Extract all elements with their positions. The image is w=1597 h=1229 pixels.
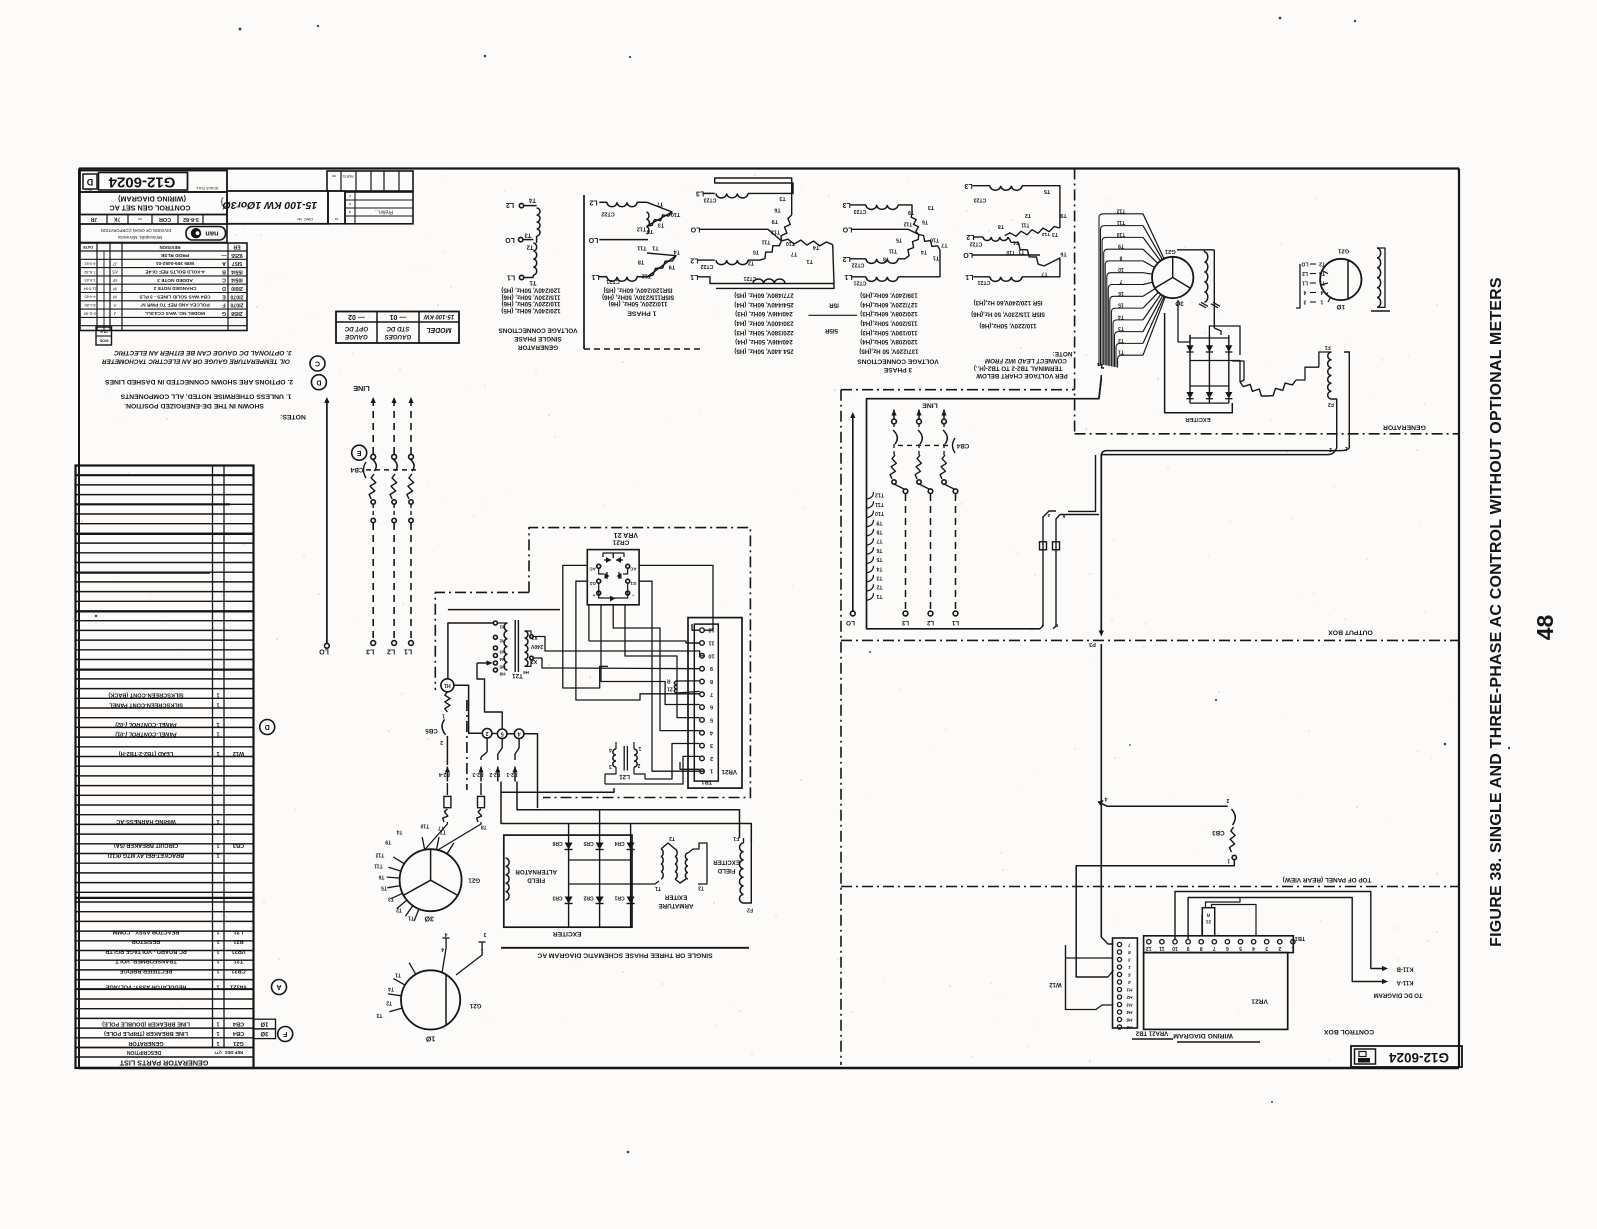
exciter cross wires [569,859,631,861]
wire P3 long drop [1100,455,1102,633]
wire TB1-11 stub [688,642,700,644]
output box inner frame [867,381,1102,629]
svg-text:TB1: TB1 [1295,935,1306,941]
svg-text:5: 5 [1128,972,1131,977]
svg-text:G1: G1 [630,581,637,586]
svg-text:5: 5 [710,716,713,722]
diode CR5 [599,835,601,927]
svg-text:P2-4: P2-4 [439,771,450,777]
svg-text:CT23: CT23 [854,208,867,214]
svg-text:T4: T4 [1013,239,1019,245]
generator G21 1-phase (schematic) [401,970,460,1029]
svg-text:T2: T2 [876,584,882,590]
svg-text:1: 1 [216,842,219,848]
wire branch to fuse pair [1068,455,1096,511]
svg-text:7: 7 [1041,622,1044,627]
generator G21 1-phase [1320,259,1361,300]
svg-text:9: 9 [1186,945,1189,951]
breaker CB4 output pole 2 [916,410,921,416]
svg-text:G21: G21 [1337,247,1349,253]
wire junction to plug2 [454,685,483,733]
svg-text:BRACKET-RELAY MTG (K11): BRACKET-RELAY MTG (K11) [108,852,185,858]
svg-text:1: 1 [1227,858,1230,864]
svg-text:T10: T10 [930,237,939,243]
generator 1ph lead T3 [389,1008,402,1012]
terminal TB1-5 [700,718,705,723]
note marker C [310,356,325,371]
svg-text:G12-6024: G12-6024 [1388,1050,1449,1065]
winding diagram W2 one-phase doubledelta [607,202,637,207]
exciter armature winding (right) [1240,382,1267,396]
svg-text:OPT DC: OPT DC [344,325,368,332]
svg-text:TB1: TB1 [701,778,712,784]
svg-text:8: 8 [1119,254,1122,260]
svg-text:T9: T9 [385,838,391,844]
winding diagram W4 three phase wye B [850,204,866,206]
svg-text:T1: T1 [933,255,939,261]
svg-text:11: 11 [1159,945,1165,951]
option marker D [260,720,275,735]
svg-text:7: 7 [1213,945,1216,951]
alternator field winding [506,858,510,900]
svg-text:120/208V, 50Hz,(H4): 120/208V, 50Hz,(H4) [860,338,918,345]
svg-text:L2: L2 [926,619,934,625]
svg-text:1-5-83: 1-5-83 [85,278,96,282]
svg-text:T1: T1 [1018,249,1024,255]
svg-text:VR21: VR21 [1251,998,1268,1005]
svg-text:P2-2: P2-2 [489,771,500,777]
generator G21 lead T7 [422,837,425,850]
svg-text:2: 2 [1278,945,1281,951]
terminal TB1w-2 [1278,940,1282,944]
svg-text:240V: 240V [530,643,543,649]
svg-text:G21: G21 [233,1040,244,1046]
wire CR21 loop 2 [576,581,700,700]
group divider line [583,195,585,349]
1ph stubs up [442,938,446,973]
svg-text:FIELD: FIELD [527,877,545,884]
fuse below P2-3 [480,783,482,795]
svg-text:8: 8 [710,678,713,684]
svg-text:PROD RLSE: PROD RLSE [160,252,189,258]
wire plug5 to T21 H5 arrow [485,700,503,729]
svg-text:7: 7 [1128,942,1131,947]
svg-text:G12-6024: G12-6024 [108,174,175,191]
terminal TB1w-7 [1212,940,1216,944]
svg-text:CR6: CR6 [552,840,562,846]
resistor R21 schematic [674,681,677,693]
svg-text:I5R120/240V, 60Hz, (H5): I5R120/240V, 60Hz, (H5) [604,287,673,294]
T21 terminal H6 [493,668,497,672]
svg-text:T5: T5 [1044,188,1050,194]
svg-text:T11: T11 [889,248,898,254]
svg-text:CR4: CR4 [614,840,624,846]
svg-text:T3: T3 [1118,325,1124,331]
svg-text:−: − [632,592,635,597]
generator G21 lead T10 [437,837,440,850]
svg-text:CT21: CT21 [606,278,619,284]
svg-text:VR21: VR21 [232,948,246,954]
terminal TB2-H6 [1117,1025,1121,1029]
svg-text:T10: T10 [671,211,680,217]
svg-text:R: R [667,677,671,683]
sheet border frame [79,167,1459,169]
svg-text:L1: L1 [507,274,515,281]
svg-text:120/240V, 50Hz, (H5): 120/240V, 50Hz, (H5) [501,287,560,294]
svg-text:CB5: CB5 [425,727,438,734]
rotating rectifier leg 1 [1189,335,1191,403]
svg-text:9255: 9255 [231,252,243,258]
svg-text:1 PHASE: 1 PHASE [627,310,657,317]
svg-text:T2: T2 [748,259,754,265]
svg-text:T6: T6 [378,874,384,880]
svg-text:G: G [222,310,226,316]
svg-text:ER: ER [233,244,240,250]
svg-text:T2: T2 [1118,337,1124,343]
svg-text:PC BOARD - VOLTAGE RGLTR: PC BOARD - VOLTAGE RGLTR [105,948,186,954]
svg-text:I5R 120/240V,60 Hz,(H3): I5R 120/240V,60 Hz,(H3) [974,299,1043,306]
reactor L21 [613,749,616,767]
svg-text:GAUGES: GAUGES [384,333,412,340]
svg-text:1: 1 [216,721,219,727]
svg-text:230/400V, 60Hz, (H4): 230/400V, 60Hz, (H4) [734,319,793,326]
svg-text:139/240V, 60Hz,(H5): 139/240V, 60Hz,(H5) [860,291,918,298]
wire mesh verticals [588,605,590,641]
terminal TB1-11 [700,641,705,646]
terminal TB1w-1 [1291,940,1295,944]
svg-text:LO: LO [963,251,973,258]
wire bottom rail B from P2-1 [517,782,740,839]
winding diagram W3 three phase wye A [704,192,715,194]
svg-text:T1: T1 [806,258,812,264]
generator G21 3-phase (schematic) [400,849,462,911]
wire plug4 right to bottom rail [524,734,538,808]
svg-text:15-K: 15-K [100,330,108,334]
svg-text:GENERATOR: GENERATOR [518,343,559,350]
svg-text:4-3-82: 4-3-82 [85,262,96,266]
terminal TB1-4 [700,731,705,736]
svg-text:3: 3 [710,742,713,748]
svg-text:CIRCUIT BREAKER (5A): CIRCUIT BREAKER (5A) [114,842,178,848]
breaker CB4 pole L1 [410,399,412,454]
svg-text:F2: F2 [747,906,753,912]
svg-text:T12: T12 [375,851,384,857]
svg-text:T9: T9 [669,263,675,269]
svg-text:T6: T6 [922,219,928,225]
svg-text:VA121: VA121 [230,984,247,990]
svg-text:REACTOR ASSY - COMM: REACTOR ASSY - COMM [112,929,179,935]
svg-text:T6: T6 [1060,250,1066,256]
svg-text:4: 4 [441,946,444,952]
svg-text:F2: F2 [1328,401,1334,407]
svg-text:1: 1 [216,958,219,964]
svg-text:SCALE FULL: SCALE FULL [196,186,219,190]
terminal TB2-H1 [1117,987,1121,991]
generator G21 lead T5 [391,893,403,899]
svg-text:T21: T21 [512,672,523,679]
svg-text:T2: T2 [669,835,675,841]
svg-text:L1: L1 [965,273,973,280]
svg-text:T7: T7 [876,538,882,544]
plug circle 5 [497,729,507,739]
svg-text:T1: T1 [529,279,537,285]
svg-text:T3: T3 [876,575,882,581]
svg-text:MODEL: MODEL [426,326,451,333]
svg-text:T3: T3 [698,884,704,890]
svg-text:16: 16 [1118,290,1124,296]
svg-text:LO: LO [690,225,700,232]
generator G21 lead T6 [387,886,400,888]
svg-text:LO: LO [588,236,598,243]
terminal TB1w-8 [1199,940,1203,944]
svg-text:F: F [282,1030,287,1037]
svg-text:CB4: CB4 [232,1020,244,1026]
svg-text:5I5R: 5I5R [824,327,838,334]
svg-text:LO: LO [1301,261,1308,267]
svg-text:VR21: VR21 [721,768,737,775]
svg-text:H6: H6 [499,671,505,676]
terminal TB1w-12 [1147,940,1151,944]
svg-text:W12: W12 [1049,981,1062,987]
svg-text:CB3: CB3 [1212,829,1225,836]
svg-text:F: F [222,302,225,308]
svg-text:L1: L1 [844,273,852,280]
svg-text:T3: T3 [388,896,394,902]
svg-text:E: E [222,293,226,299]
wire T21 X2 to TB1-9 [533,658,699,669]
svg-text:4: 4 [1104,796,1107,802]
svg-text:T8: T8 [876,529,882,535]
T21 terminal H3 [493,646,497,650]
svg-text:254 440V, 50Hz, (H5): 254 440V, 50Hz, (H5) [734,347,793,354]
svg-text:T4: T4 [396,828,402,834]
svg-text:5: 5 [501,730,504,736]
svg-text:L1: L1 [1302,280,1308,286]
svg-text:T4: T4 [388,985,394,991]
terminal TB1-9 [700,666,705,671]
svg-text:ADDED NOTE 3: ADDED NOTE 3 [157,277,193,283]
leads 3ph to fuses [424,822,447,851]
svg-text:T2: T2 [1319,261,1325,267]
svg-text:L2: L2 [843,255,851,262]
svg-text:REF DES: REF DES [225,1050,243,1055]
wires TB1 to K11 [1175,892,1385,969]
plug arrow P2-4 [445,767,450,773]
svg-text:T9: T9 [772,218,778,224]
svg-text:T10: T10 [420,823,429,829]
svg-text:T8: T8 [638,259,644,265]
svg-text:CR2: CR2 [583,895,593,901]
svg-text:ALTERNATOR: ALTERNATOR [515,868,557,875]
svg-text:T4: T4 [1118,313,1124,319]
scan-dark row artifacts [76,533,253,535]
svg-text:T6: T6 [876,547,882,553]
svg-text:M: M [113,295,117,300]
svg-text:A: A [113,303,117,308]
svg-text:T21: T21 [234,958,244,964]
svg-text:L3: L3 [843,201,851,208]
svg-text:D: D [86,177,93,187]
svg-text:4: 4 [444,931,447,937]
svg-text:AC: AC [589,567,596,572]
svg-text:10: 10 [708,652,714,658]
svg-text:1: 1 [216,1020,219,1026]
svg-text:3: 3 [609,763,612,769]
svg-text:T11: T11 [637,245,646,251]
svg-text:T3: T3 [928,204,934,210]
winding diagram W5 three phase wye C [973,185,990,187]
svg-text:NOTE:: NOTE: [1053,350,1073,357]
svg-text:SINGLE PHASE: SINGLE PHASE [513,335,561,342]
breaker CB4 pole L3 [372,399,374,454]
plug terminal H1 circle [441,679,454,692]
svg-text:L1: L1 [591,273,599,280]
svg-text:T1: T1 [652,245,658,251]
svg-text:T10: T10 [875,510,884,516]
svg-text:+: + [592,592,595,597]
svg-text:L3: L3 [366,648,374,655]
svg-text:CONTROL BOX: CONTROL BOX [1323,1028,1374,1035]
option marker A [272,980,287,995]
svg-text:C: C [315,360,320,367]
svg-text:T9: T9 [876,519,882,525]
svg-text:277/480V, 60Hz, (H5): 277/480V, 60Hz, (H5) [734,291,793,298]
svg-text:1: 1 [442,712,445,718]
svg-text:OUTPUT BOX: OUTPUT BOX [1328,629,1373,636]
svg-text:SINGLE OR THREE PHASE SCHE: SINGLE OR THREE PHASE SCHEMATIC DIAGRAM … [537,952,712,959]
svg-text:REGULATOR ASSY- VOLTAGE: REGULATOR ASSY- VOLTAGE [105,984,186,990]
wire L21-1 to TB1-3 [645,744,700,780]
wire H1 to T21-H1 [448,623,494,679]
svg-text:T6: T6 [647,228,653,234]
wire CR21 G1 right loop [639,581,704,771]
svg-text:137/220V, 50 Hz,(H5): 137/220V, 50 Hz,(H5) [859,347,918,354]
svg-text:H5: H5 [1126,1017,1132,1022]
svg-text:M: M [113,286,117,291]
svg-text:T12: T12 [637,226,646,232]
svg-text:4-XOLD BOLTS REF OI.4E: 4-XOLD BOLTS REF OI.4E [145,269,205,275]
svg-text:2II58: 2II58 [231,310,243,316]
svg-text:L2: L2 [966,233,974,240]
wire + down to TB1-5 [601,605,700,705]
svg-text:G21: G21 [468,876,480,883]
wire CR21 loop 1 [563,565,608,688]
svg-text:T11: T11 [1021,221,1030,227]
svg-text:B: B [222,268,226,274]
plug arrow P2-1 [512,767,517,773]
svg-text:P3: P3 [1089,641,1096,647]
svg-text:4: 4 [1320,289,1323,295]
diode CR6 [568,835,570,927]
breaker CB4 output pole 3 [941,410,946,416]
svg-text:CT21: CT21 [854,280,867,286]
svg-text:8: 8 [1128,950,1131,955]
svg-text:CB4: CB4 [956,442,969,449]
assembly boundary VRA21 (dash-dot) [529,528,750,798]
svg-text:3. OPTIONAL DC GAUGE CAN BE EI: 3. OPTIONAL DC GAUGE CAN BE EITHER AN EL… [114,349,292,356]
svg-text:VOLTAGE CONNECTIONS: VOLTAGE CONNECTIONS [857,357,939,364]
svg-text:7-N-82: 7-N-82 [84,270,96,274]
terminal TB1w-4 [1251,940,1255,944]
wire pair to P3 drop [1101,448,1336,455]
caption single or three phase schematic [501,947,749,949]
svg-text:CR3: CR3 [552,895,562,901]
svg-text:L2: L2 [690,256,698,263]
winding diagram W1 single phase [537,208,540,236]
svg-text:SHOWN IN THE DE-ENERGIZED POSI: SHOWN IN THE DE-ENERGIZED POSITION. [124,402,264,409]
terminal TB1w-3 [1265,940,1269,944]
exciter field coil (right) [1328,352,1332,399]
svg-text:LO: LO [319,648,329,655]
diode CR4 [630,835,632,927]
svg-text:VRA 21: VRA 21 [614,531,638,538]
svg-text:6: 6 [710,704,713,710]
svg-text:15-100 KW: 15-100 KW [422,313,454,319]
winding coil right of 3ph generator [1196,249,1214,251]
svg-text:CT23: CT23 [974,196,987,202]
generator G21 lead T4 [447,843,454,854]
svg-text:TRANSFORMER- VOLT: TRANSFORMER- VOLT [115,958,177,964]
svg-text:T4: T4 [812,244,819,250]
svg-text:12: 12 [1146,945,1152,951]
svg-text:CB4 WAS SOLID LINES - 3 PLS: CB4 WAS SOLID LINES - 3 PLS [139,293,211,299]
title box G12-6024 bottom [1351,1046,1462,1067]
svg-text:D: D [265,723,270,730]
terminal TB2-H2 [1117,995,1121,999]
svg-text:3Ø: 3Ø [424,914,434,921]
svg-text:G21: G21 [469,1002,481,1009]
plug arrow P2-2 [495,767,500,773]
svg-text:T4: T4 [528,196,536,202]
wire arrow into H5 [477,662,491,664]
wire T21 X1 to TB1-10 [533,637,704,656]
wire LO long arrow [326,399,328,644]
svg-text:6: 6 [1062,514,1065,519]
svg-text:Minneapolis, Minnesota: Minneapolis, Minnesota [117,235,162,240]
svg-text:TERMINAL TB2-2 TO TB2-(H..): TERMINAL TB2-2 TO TB2-(H..) [974,365,1062,372]
svg-text:K11-A: K11-A [1396,979,1414,985]
option marker E [352,445,367,460]
rotating rectifier leg 2 [1208,335,1210,403]
svg-text:T6: T6 [774,207,780,213]
svg-text:T8: T8 [883,256,889,262]
generator 1ph lead T2 [388,994,401,996]
svg-text:E: E [357,449,362,456]
revision table [80,243,247,331]
svg-text:1: 1 [216,929,219,935]
terminal TB2-3 [1117,957,1121,961]
svg-text:FIELD: FIELD [717,867,735,874]
note marker D [311,375,326,390]
exciter armature winding [631,883,655,885]
svg-text:LO: LO [846,619,855,626]
breaker CB5 [445,692,450,712]
svg-text:CB4: CB4 [232,1030,244,1036]
svg-text:Prelim...: Prelim... [375,209,393,215]
svg-text:3: 3 [1128,957,1131,962]
terminal strip TB1 VR21 [688,618,742,789]
svg-text:T10: T10 [1116,231,1125,237]
svg-text:T2: T2 [1025,212,1031,218]
svg-text:— 02: — 02 [348,313,365,320]
svg-text:3-8-82: 3-8-82 [183,216,199,222]
title block G12-6024 (rotated scan) [80,171,227,193]
svg-text:1: 1 [216,852,219,858]
exciter field coil (schematic) [740,843,744,903]
svg-text:P2-3: P2-3 [472,771,483,777]
svg-text:120/240V, 60Hz, (H5): 120/240V, 60Hz, (H5) [501,307,560,314]
svg-text:1Ø: 1Ø [1337,303,1346,310]
